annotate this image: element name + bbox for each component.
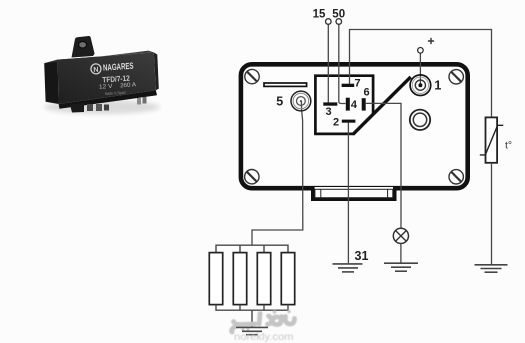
terminal 50 circle [336,19,342,25]
screw bottom-left [245,170,259,184]
wire pin 2 to ground 31 [347,123,349,264]
svg-text:260 A: 260 A [120,82,136,89]
pin 2 [342,120,356,123]
glow plug 2 [233,253,246,305]
connector outline [314,76,373,134]
svg-text:4: 4 [351,99,358,111]
lamp [393,228,408,243]
relay photo label text [91,61,137,97]
wire pin 7 to thermistor [350,30,492,118]
pin 4 [346,98,350,111]
svg-text:31: 31 [355,249,369,263]
svg-text:50: 50 [332,9,345,21]
wire plus to terminal 1 [419,53,421,85]
plus terminal circle [418,48,424,54]
ground thermistor [475,265,508,272]
glow plug bottom bus [216,305,288,328]
glow plug 4 [281,253,294,305]
wire lamp to ground [400,244,402,264]
watermark dots [242,310,291,331]
watermark [232,314,295,333]
label plus [428,38,434,44]
pin 3 [323,102,337,105]
wire 50 to pin 4 [339,24,346,103]
wire terminal 5 to glow plugs [252,101,303,245]
relay photo mounting tab [72,36,95,58]
terminal 15 circle [326,19,332,25]
screw top-left [245,69,259,83]
unlabeled terminal [410,110,430,130]
svg-text:6: 6 [364,86,370,98]
terminal 5 [291,91,311,111]
svg-text:NAGARES: NAGARES [103,61,134,73]
bottom connector tab [311,187,397,201]
terminal 1 [410,75,431,96]
svg-text:t°: t° [505,140,512,152]
svg-text:3: 3 [326,106,332,118]
ground 31 [333,264,363,272]
relay photo shadow [44,100,160,114]
pin 6 [362,98,366,110]
glow plug 3 [257,253,270,305]
screw bottom-right [449,170,463,184]
svg-text:norekly.com: norekly.com [234,331,294,343]
screw top-right [449,70,463,84]
wire 15 to pin 3 [327,24,329,102]
relay body outline [241,64,468,188]
diagonal line [353,77,411,134]
wire thermistor to ground [491,163,493,265]
svg-text:15: 15 [313,9,326,21]
slot [264,83,307,86]
svg-text:5: 5 [276,94,283,108]
relay photo body [44,51,159,113]
svg-text:2: 2 [333,116,339,128]
svg-text:N: N [93,65,99,74]
glow plug top bus [216,245,288,252]
wire pin 6 to lamp [366,103,401,228]
glow plug 1 [209,253,222,305]
ground glow plugs [236,327,268,334]
ground lamp [384,263,418,271]
thermistor [480,117,504,162]
pin 7 [342,84,355,87]
svg-text:1: 1 [434,78,441,92]
svg-text:7: 7 [355,78,361,90]
